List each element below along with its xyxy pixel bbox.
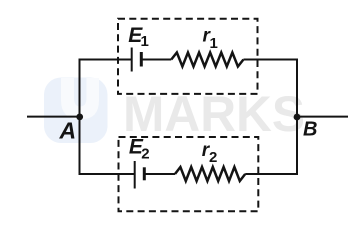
resistor r2 zigzag [175, 167, 245, 181]
svg-text:B: B [303, 119, 317, 141]
node B [294, 114, 301, 121]
watermark logo [44, 78, 108, 144]
battery E1 plates [131, 48, 133, 72]
svg-text:2: 2 [209, 149, 217, 166]
wire left vertical [79, 59, 81, 176]
dashed box around E2 r2 [119, 137, 259, 211]
wire right lead from B [297, 116, 348, 118]
wire battery E2 to resistor r2 [144, 173, 175, 175]
wire bottom branch right segment [245, 173, 298, 175]
svg-text:A: A [59, 118, 77, 144]
wire bottom branch left segment [79, 173, 135, 175]
node A [76, 114, 83, 121]
wire right vertical [296, 59, 298, 176]
wire top branch left segment [79, 59, 132, 61]
wire top branch right segment [243, 59, 298, 61]
svg-text:2: 2 [141, 145, 149, 162]
wire battery E1 to resistor r1 [141, 59, 171, 61]
wire left lead to A [27, 116, 80, 118]
svg-text:1: 1 [210, 35, 218, 52]
svg-text:1: 1 [141, 33, 149, 50]
dashed box around E1 r1 [118, 19, 258, 94]
resistor r1 zigzag [171, 53, 243, 67]
battery E2 plates [134, 161, 136, 189]
